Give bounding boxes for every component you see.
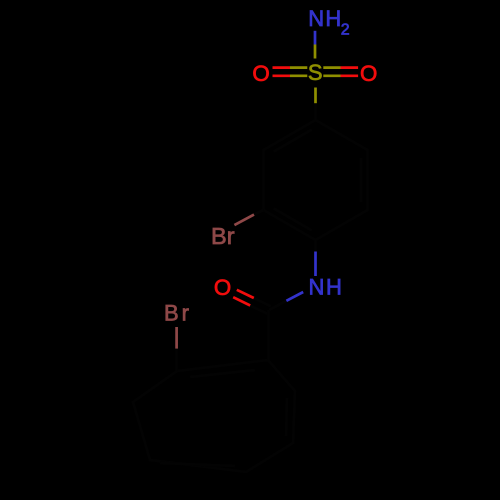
- svg-text:S: S: [308, 60, 323, 85]
- svg-text:Br: Br: [164, 300, 192, 325]
- svg-text:O: O: [252, 61, 269, 86]
- svg-text:Br: Br: [211, 223, 235, 249]
- svg-text:H: H: [325, 6, 341, 31]
- svg-text:N: N: [308, 6, 324, 31]
- svg-text:O: O: [214, 275, 231, 300]
- svg-text:O: O: [360, 61, 377, 86]
- svg-text:2: 2: [341, 22, 350, 39]
- svg-text:N: N: [309, 275, 325, 300]
- svg-text:H: H: [326, 275, 342, 300]
